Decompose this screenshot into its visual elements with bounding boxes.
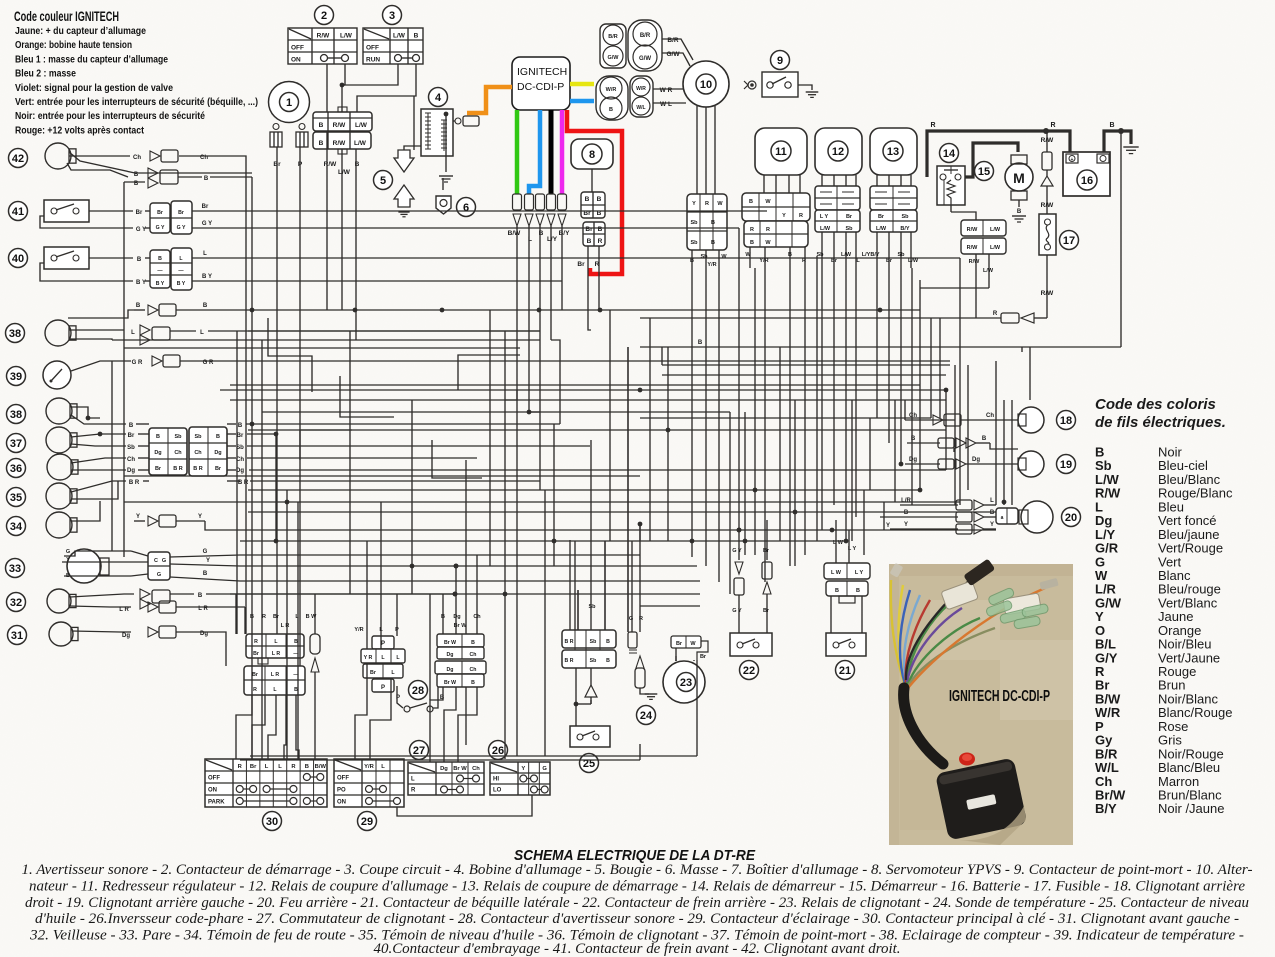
front brake switch 41: contacteur frein avant: [9, 200, 740, 234]
flasher 19: clignotant arriere gauche: [905, 436, 1076, 477]
svg-text:G: G: [629, 616, 633, 622]
alternator 10 coils: [596, 20, 693, 120]
temp gauge 39: indicateur de temperature: [7, 355, 951, 389]
svg-text:W: W: [765, 240, 771, 246]
connector pins under CDI: [508, 194, 570, 252]
svg-text:R: R: [1050, 122, 1055, 129]
svg-text:10: 10: [700, 79, 712, 91]
svg-text:39: 39: [10, 371, 22, 383]
svg-text:R/W: R/W: [324, 161, 338, 168]
flasher 18: clignotant arriere droit: [905, 407, 1076, 433]
svg-text:PARK: PARK: [208, 800, 225, 806]
svg-text:24: 24: [640, 710, 653, 722]
svg-text:B: B: [598, 226, 603, 233]
svg-text:Ch: Ch: [174, 450, 182, 456]
svg-text:L/W: L/W: [908, 258, 919, 264]
svg-text:Sb: Sb: [194, 434, 202, 440]
svg-text:LO: LO: [493, 788, 502, 794]
svg-text:Sb: Sb: [590, 639, 597, 645]
svg-text:R: R: [802, 258, 806, 264]
svg-text:17: 17: [1063, 235, 1075, 247]
svg-text:R: R: [411, 788, 416, 794]
svg-text:Dg: Dg: [154, 450, 161, 456]
svg-text:—: —: [157, 268, 163, 274]
svg-text:L/W: L/W: [983, 268, 994, 274]
svg-text:Y/R: Y/R: [354, 627, 363, 633]
oil level switch 25: contacteur niveau huile: [562, 440, 616, 773]
svg-text:B R: B R: [193, 466, 203, 472]
svg-text:Br: Br: [252, 672, 258, 678]
front flasher 42: clignotant avant droit: [9, 143, 216, 177]
svg-text:B: B: [904, 510, 909, 516]
svg-text:Y: Y: [904, 522, 908, 528]
svg-text:Noir /Jaune: Noir /Jaune: [1158, 801, 1224, 816]
svg-text:B: B: [606, 639, 610, 645]
svg-text:34: 34: [10, 521, 23, 533]
svg-text:Y/R: Y/R: [364, 764, 374, 770]
svg-text:29: 29: [361, 816, 373, 828]
svg-text:28: 28: [412, 685, 424, 697]
relay 13: relais coupure demarrage: [870, 128, 919, 268]
svg-text:Br W: Br W: [453, 766, 467, 772]
svg-text:Br: Br: [136, 210, 143, 216]
servo 8: servomoteur YPVS: [571, 139, 613, 268]
photo inset: IGNITECH DC-CDI-P unit: [889, 558, 1073, 845]
svg-text:Ch: Ch: [194, 450, 202, 456]
svg-text:B: B: [982, 436, 987, 442]
side stand switch 21: contacteur bequille laterale: [824, 520, 870, 680]
svg-text:13: 13: [887, 146, 899, 158]
wire: switches 2,3 to connector: [327, 64, 416, 113]
svg-text:L/W: L/W: [393, 33, 406, 40]
svg-text:38: 38: [9, 328, 21, 340]
svg-text:OFF: OFF: [366, 45, 379, 52]
svg-text:a: a: [1001, 515, 1004, 521]
svg-text:Sb: Sb: [897, 252, 905, 258]
svg-text:Br: Br: [585, 226, 593, 233]
svg-text:G Y: G Y: [156, 225, 165, 231]
main key switch 30: contacteur principal a cle: [205, 759, 327, 831]
svg-text:R: R: [639, 616, 643, 622]
svg-text:ON: ON: [208, 788, 217, 794]
svg-text:22: 22: [743, 665, 755, 677]
wire: 29 to 26 link: [397, 795, 532, 816]
svg-text:Sb: Sb: [700, 254, 708, 260]
rear brake switch 22: contacteur frein arriere: [730, 520, 772, 680]
svg-text:nateur - 11. Redresseur régula: nateur - 11. Redresseur régulateur - 12.…: [29, 878, 1246, 894]
svg-text:R/W: R/W: [967, 245, 979, 251]
svg-text:B Y: B Y: [202, 274, 212, 280]
svg-text:L/W: L/W: [990, 245, 1001, 251]
svg-text:L/R: L/R: [901, 498, 911, 504]
svg-text:OFF: OFF: [337, 776, 349, 782]
svg-text:W: W: [745, 252, 751, 258]
svg-text:Br: Br: [237, 433, 244, 439]
wire blue: masse capteur: [570, 99, 594, 104]
svg-text:Orange: bobine haute tension: Orange: bobine haute tension: [15, 39, 132, 51]
svg-text:B: B: [158, 256, 162, 262]
svg-text:G Y: G Y: [732, 608, 742, 614]
svg-text:B: B: [238, 423, 243, 429]
svg-text:W: W: [721, 254, 727, 260]
svg-text:L R: L R: [271, 672, 280, 678]
svg-text:41: 41: [12, 206, 24, 218]
svg-text:Br: Br: [253, 651, 259, 657]
svg-text:R/W: R/W: [1041, 202, 1055, 209]
caption list of components: [22, 862, 1253, 957]
svg-text:36: 36: [10, 463, 22, 475]
svg-text:+: +: [1071, 157, 1074, 163]
svg-text:40.Contacteur d'embrayage - 41: 40.Contacteur d'embrayage - 41. Contacte…: [374, 941, 901, 957]
svg-text:Y: Y: [990, 522, 994, 528]
svg-text:B: B: [711, 220, 715, 226]
svg-text:L R: L R: [281, 623, 290, 629]
svg-text:Y: Y: [782, 213, 786, 219]
clutch switch 40: contacteur embrayage: [9, 247, 961, 290]
svg-text:OFF: OFF: [291, 45, 304, 52]
svg-text:L: L: [265, 764, 269, 770]
switch S2: contacteur de demarrage: [288, 6, 357, 65]
svg-text:B: B: [471, 680, 475, 686]
svg-text:Y: Y: [886, 523, 890, 529]
svg-text:Sb: Sb: [845, 226, 853, 232]
svg-text:Bleu 2 : masse: Bleu 2 : masse: [15, 68, 76, 80]
svg-text:B/R: B/R: [640, 33, 651, 39]
svg-text:Vert: entrée pour les interrup: Vert: entrée pour les interrupteurs de s…: [15, 96, 258, 108]
junction dots: [274, 388, 1007, 597]
svg-text:G: G: [157, 572, 161, 578]
legend: code des coloris de fils electriques: [1095, 396, 1233, 816]
svg-text:16: 16: [1081, 175, 1093, 187]
connector Dg/Ch matrix to switch 27: [430, 541, 486, 762]
svg-text:B/Y: B/Y: [1095, 801, 1117, 816]
svg-text:32: 32: [10, 597, 22, 609]
svg-text:G/W: G/W: [639, 56, 651, 62]
wire: R/W row to mesh: [920, 287, 989, 289]
svg-text:1: 1: [286, 97, 292, 109]
temperature sensor 24: sonde: [628, 524, 657, 725]
svg-text:L: L: [200, 330, 204, 336]
meter lamp 38: eclairage de compteur: [6, 320, 541, 346]
svg-text:L Y: L Y: [855, 570, 864, 576]
svg-text:Dg: Dg: [447, 652, 454, 658]
relay 12: relais coupure allumage: [815, 128, 871, 268]
svg-text:Sb: Sb: [690, 240, 698, 246]
svg-text:Rouge: +12 volts après contact: Rouge: +12 volts après contact: [15, 124, 144, 136]
svg-text:R: R: [930, 122, 935, 129]
svg-text:Br: Br: [128, 433, 135, 439]
svg-text:L/W: L/W: [355, 122, 368, 129]
svg-text:B/R: B/R: [667, 37, 679, 44]
svg-text:d'huile - 26.Inversseur code-p: d'huile - 26.Inversseur code-phare - 27.…: [35, 911, 1239, 927]
svg-text:Br: Br: [700, 654, 707, 660]
svg-text:Br: Br: [202, 204, 209, 210]
svg-text:G/W: G/W: [667, 51, 681, 58]
svg-text:ON: ON: [337, 800, 346, 806]
svg-text:Dg: Dg: [453, 614, 460, 620]
connector pair above switch 30: [236, 634, 305, 759]
front flasher 31: clignotant avant gauche: [8, 622, 227, 646]
spark plug 5 and arrows: [374, 150, 415, 217]
neutral switch 9: contacteur point-mort: [744, 51, 818, 98]
svg-text:L: L: [131, 330, 135, 336]
svg-text:L R: L R: [119, 607, 129, 613]
svg-text:B R: B R: [565, 639, 574, 645]
svg-text:OFF: OFF: [208, 776, 220, 782]
svg-text:Br: Br: [155, 466, 162, 472]
svg-text:B/Y: B/Y: [900, 226, 910, 232]
svg-text:L/W: L/W: [820, 226, 831, 232]
svg-text:Y: Y: [692, 201, 696, 207]
svg-text:B: B: [690, 258, 694, 264]
svg-text:19: 19: [1060, 459, 1072, 471]
svg-text:B: B: [1109, 122, 1114, 129]
svg-text:3: 3: [389, 10, 395, 22]
svg-text:W R: W R: [660, 87, 673, 94]
svg-text:droit - 19. Clignotant arrière: droit - 19. Clignotant arrière gauche - …: [25, 895, 1249, 911]
svg-text:Dg: Dg: [972, 457, 980, 463]
svg-text:Y: Y: [136, 514, 140, 520]
svg-text:B: B: [698, 340, 703, 346]
svg-text:L/W: L/W: [340, 33, 353, 40]
svg-text:G: G: [162, 558, 166, 564]
svg-text:W: W: [765, 199, 771, 205]
wire row Y y521: [134, 514, 996, 532]
wire harness: vertical buses: [226, 96, 1121, 759]
svg-text:Br: Br: [676, 641, 683, 647]
svg-text:B/Y: B/Y: [870, 252, 880, 258]
svg-text:B Y: B Y: [177, 281, 186, 287]
svg-text:B: B: [204, 176, 209, 182]
svg-text:B: B: [156, 434, 160, 440]
svg-text:B: B: [788, 252, 792, 258]
svg-text:L R: L R: [272, 651, 281, 657]
svg-text:B: B: [606, 658, 610, 664]
svg-text:B: B: [319, 140, 324, 147]
svg-text:B/W: B/W: [508, 230, 522, 237]
svg-text:4: 4: [435, 92, 442, 104]
coil T1: bobine d allumage: [404, 88, 479, 183]
svg-text:B/Y: B/Y: [559, 230, 571, 237]
svg-text:B/W: B/W: [315, 764, 327, 770]
lighting switch 29: contacteur d eclairage: [334, 759, 404, 831]
svg-text:42: 42: [12, 153, 24, 165]
svg-text:Violet: signal pour la gestion: Violet: signal pour la gestion de valve: [15, 82, 173, 94]
svg-text:Sb: Sb: [590, 658, 597, 664]
svg-text:L W: L W: [831, 570, 842, 576]
svg-text:11: 11: [775, 146, 787, 158]
svg-text:Y: Y: [198, 514, 202, 520]
svg-text:R: R: [799, 213, 803, 219]
wire green: securite: [515, 110, 520, 194]
svg-text:B: B: [597, 196, 602, 203]
svg-text:R: R: [750, 227, 754, 233]
svg-text:PO: PO: [337, 788, 346, 794]
wire black: entree securite: [549, 110, 554, 194]
svg-text:Ch: Ch: [127, 457, 135, 463]
svg-text:R: R: [766, 227, 770, 233]
svg-text:Y R: Y R: [364, 655, 373, 661]
svg-text:L: L: [411, 777, 415, 783]
svg-text:9: 9: [777, 55, 783, 67]
svg-text:G Y: G Y: [136, 227, 146, 233]
turn signal switch 27: commutateur de clignotant: [408, 741, 484, 796]
svg-text:L/W: L/W: [354, 140, 367, 147]
svg-text:35: 35: [10, 492, 22, 504]
starter motor M 15: [975, 155, 1034, 222]
svg-text:Code couleur IGNITECH: Code couleur IGNITECH: [14, 9, 119, 24]
connector under relay 14: [951, 205, 1006, 318]
svg-text:Br: Br: [831, 258, 838, 264]
svg-text:21: 21: [839, 665, 851, 677]
svg-text:B: B: [136, 303, 141, 309]
svg-text:12: 12: [832, 146, 844, 158]
tail lamp 20: feu arriere: [880, 498, 1081, 534]
svg-text:R/W: R/W: [317, 33, 331, 40]
svg-text:Br: Br: [846, 214, 853, 220]
wire: drops above switch 30: [250, 614, 317, 629]
svg-text:Br: Br: [763, 548, 770, 554]
svg-text:R: R: [705, 201, 709, 207]
svg-text:B: B: [609, 107, 613, 113]
fuse chain R/W: [1041, 131, 1055, 214]
svg-text:P: P: [381, 685, 385, 691]
svg-text:Dg: Dg: [440, 766, 448, 772]
svg-text:30: 30: [266, 816, 278, 828]
regulator 11: redresseur regulateur: [742, 128, 810, 268]
wire row B y310: [68, 303, 920, 318]
wire harness: scattered elbows: [268, 318, 520, 478]
wire orange: haute tension to coil: [467, 87, 512, 113]
svg-text:Br: Br: [878, 214, 885, 220]
flasher relay 23: [663, 636, 708, 703]
svg-text:R/W: R/W: [967, 227, 979, 233]
svg-text:Ch: Ch: [470, 667, 477, 673]
connector Y/R L P to switch 29: [354, 564, 405, 759]
svg-text:L/W: L/W: [338, 169, 351, 176]
svg-text:Br: Br: [577, 261, 585, 268]
svg-text:C: C: [154, 558, 158, 564]
svg-text:1. Avertisseur sonore - 2. Con: 1. Avertisseur sonore - 2. Contacteur de…: [22, 862, 1253, 878]
svg-text:G Y: G Y: [202, 221, 212, 227]
wire: thick battery R net: [927, 122, 1139, 177]
svg-text:R/W: R/W: [333, 140, 347, 147]
svg-text:L Y: L Y: [820, 214, 829, 220]
svg-text:Y: Y: [206, 558, 210, 564]
svg-text:W L: W L: [660, 101, 672, 108]
wire harness: elbows and links: [356, 178, 920, 760]
svg-text:Br W: Br W: [444, 680, 456, 686]
wire harness: long horizontal rows: [69, 152, 1121, 760]
svg-text:Br: Br: [886, 258, 893, 264]
B/W capsule column: [310, 594, 320, 759]
svg-text:G/W: G/W: [608, 55, 620, 61]
svg-text:Sb: Sb: [174, 434, 182, 440]
svg-text:B: B: [305, 764, 309, 770]
svg-text:B: B: [216, 434, 220, 440]
svg-text:5: 5: [380, 175, 386, 187]
svg-text:B/R: B/R: [608, 34, 618, 40]
svg-text:Sb: Sb: [127, 445, 135, 451]
svg-text:8: 8: [589, 149, 595, 161]
legend: code couleur IGNITECH: [14, 9, 258, 136]
svg-text:14: 14: [943, 148, 956, 160]
svg-text:18: 18: [1060, 415, 1072, 427]
svg-text:Br: Br: [370, 670, 376, 676]
svg-text:L: L: [381, 764, 385, 770]
wire: B rows top left: [124, 168, 252, 188]
svg-text:L/Y: L/Y: [862, 252, 871, 258]
svg-text:Y/R: Y/R: [759, 258, 768, 264]
svg-text:Jaune: + du capteur d’allumage: Jaune: + du capteur d’allumage: [15, 25, 146, 37]
battery 16: [1063, 152, 1110, 196]
connector under switches: [273, 107, 372, 176]
svg-text:B: B: [990, 510, 995, 516]
svg-text:2: 2: [321, 10, 327, 22]
svg-text:B: B: [1017, 209, 1022, 215]
connector under alternator: [687, 194, 727, 268]
alternator 10: [683, 61, 729, 194]
svg-text:33: 33: [9, 563, 21, 575]
ground lug 6: masse: [436, 196, 476, 217]
svg-text:RUN: RUN: [366, 57, 380, 64]
svg-text:6: 6: [463, 202, 469, 214]
svg-text:40: 40: [12, 253, 24, 265]
svg-text:R: R: [254, 639, 258, 645]
svg-text:L/W: L/W: [990, 227, 1001, 233]
svg-text:IGNITECH DC-CDI-P: IGNITECH DC-CDI-P: [949, 688, 1050, 705]
svg-text:B: B: [856, 588, 860, 594]
svg-text:L/W: L/W: [876, 226, 887, 232]
svg-text:26: 26: [492, 745, 504, 757]
svg-text:15: 15: [978, 166, 990, 178]
svg-text:G Y: G Y: [177, 225, 186, 231]
starter relay 14: [937, 144, 965, 206]
svg-text:B Y: B Y: [136, 280, 146, 286]
svg-text:G: G: [203, 549, 208, 555]
svg-text:R: R: [253, 687, 257, 693]
svg-text:W/L: W/L: [636, 105, 645, 111]
svg-text:27: 27: [413, 745, 425, 757]
svg-text:R/W: R/W: [1041, 290, 1055, 297]
wire magenta: gestion de valve: [560, 110, 565, 194]
svg-text:B R: B R: [173, 466, 183, 472]
svg-text:20: 20: [1065, 512, 1077, 524]
svg-text:L/W: L/W: [841, 252, 852, 258]
svg-text:Noir: entrée pour les interrup: Noir: entrée pour les interrupteurs de s…: [15, 110, 205, 122]
svg-text:HI: HI: [493, 777, 499, 783]
svg-text:Sb: Sb: [690, 220, 698, 226]
svg-text:W/R: W/R: [606, 87, 617, 93]
svg-text:L: L: [203, 251, 207, 257]
svg-text:B: B: [203, 303, 208, 309]
svg-text:W: W: [717, 201, 723, 207]
svg-text:B: B: [835, 588, 839, 594]
svg-text:B: B: [749, 199, 753, 205]
svg-text:Y/R: Y/R: [707, 262, 716, 268]
svg-text:B: B: [319, 122, 324, 129]
svg-text:Br: Br: [178, 210, 184, 216]
svg-text:B Y: B Y: [156, 281, 165, 287]
city lamp 32: pare: [7, 589, 458, 613]
svg-text:de fils électriques.: de fils électriques.: [1095, 414, 1226, 431]
svg-text:DC-CDI-P: DC-CDI-P: [517, 81, 564, 93]
svg-text:B: B: [711, 240, 715, 246]
svg-text:M: M: [1013, 170, 1025, 186]
svg-text:Ch: Ch: [470, 652, 477, 658]
svg-text:ON: ON: [291, 57, 301, 64]
svg-text:B: B: [471, 640, 475, 646]
